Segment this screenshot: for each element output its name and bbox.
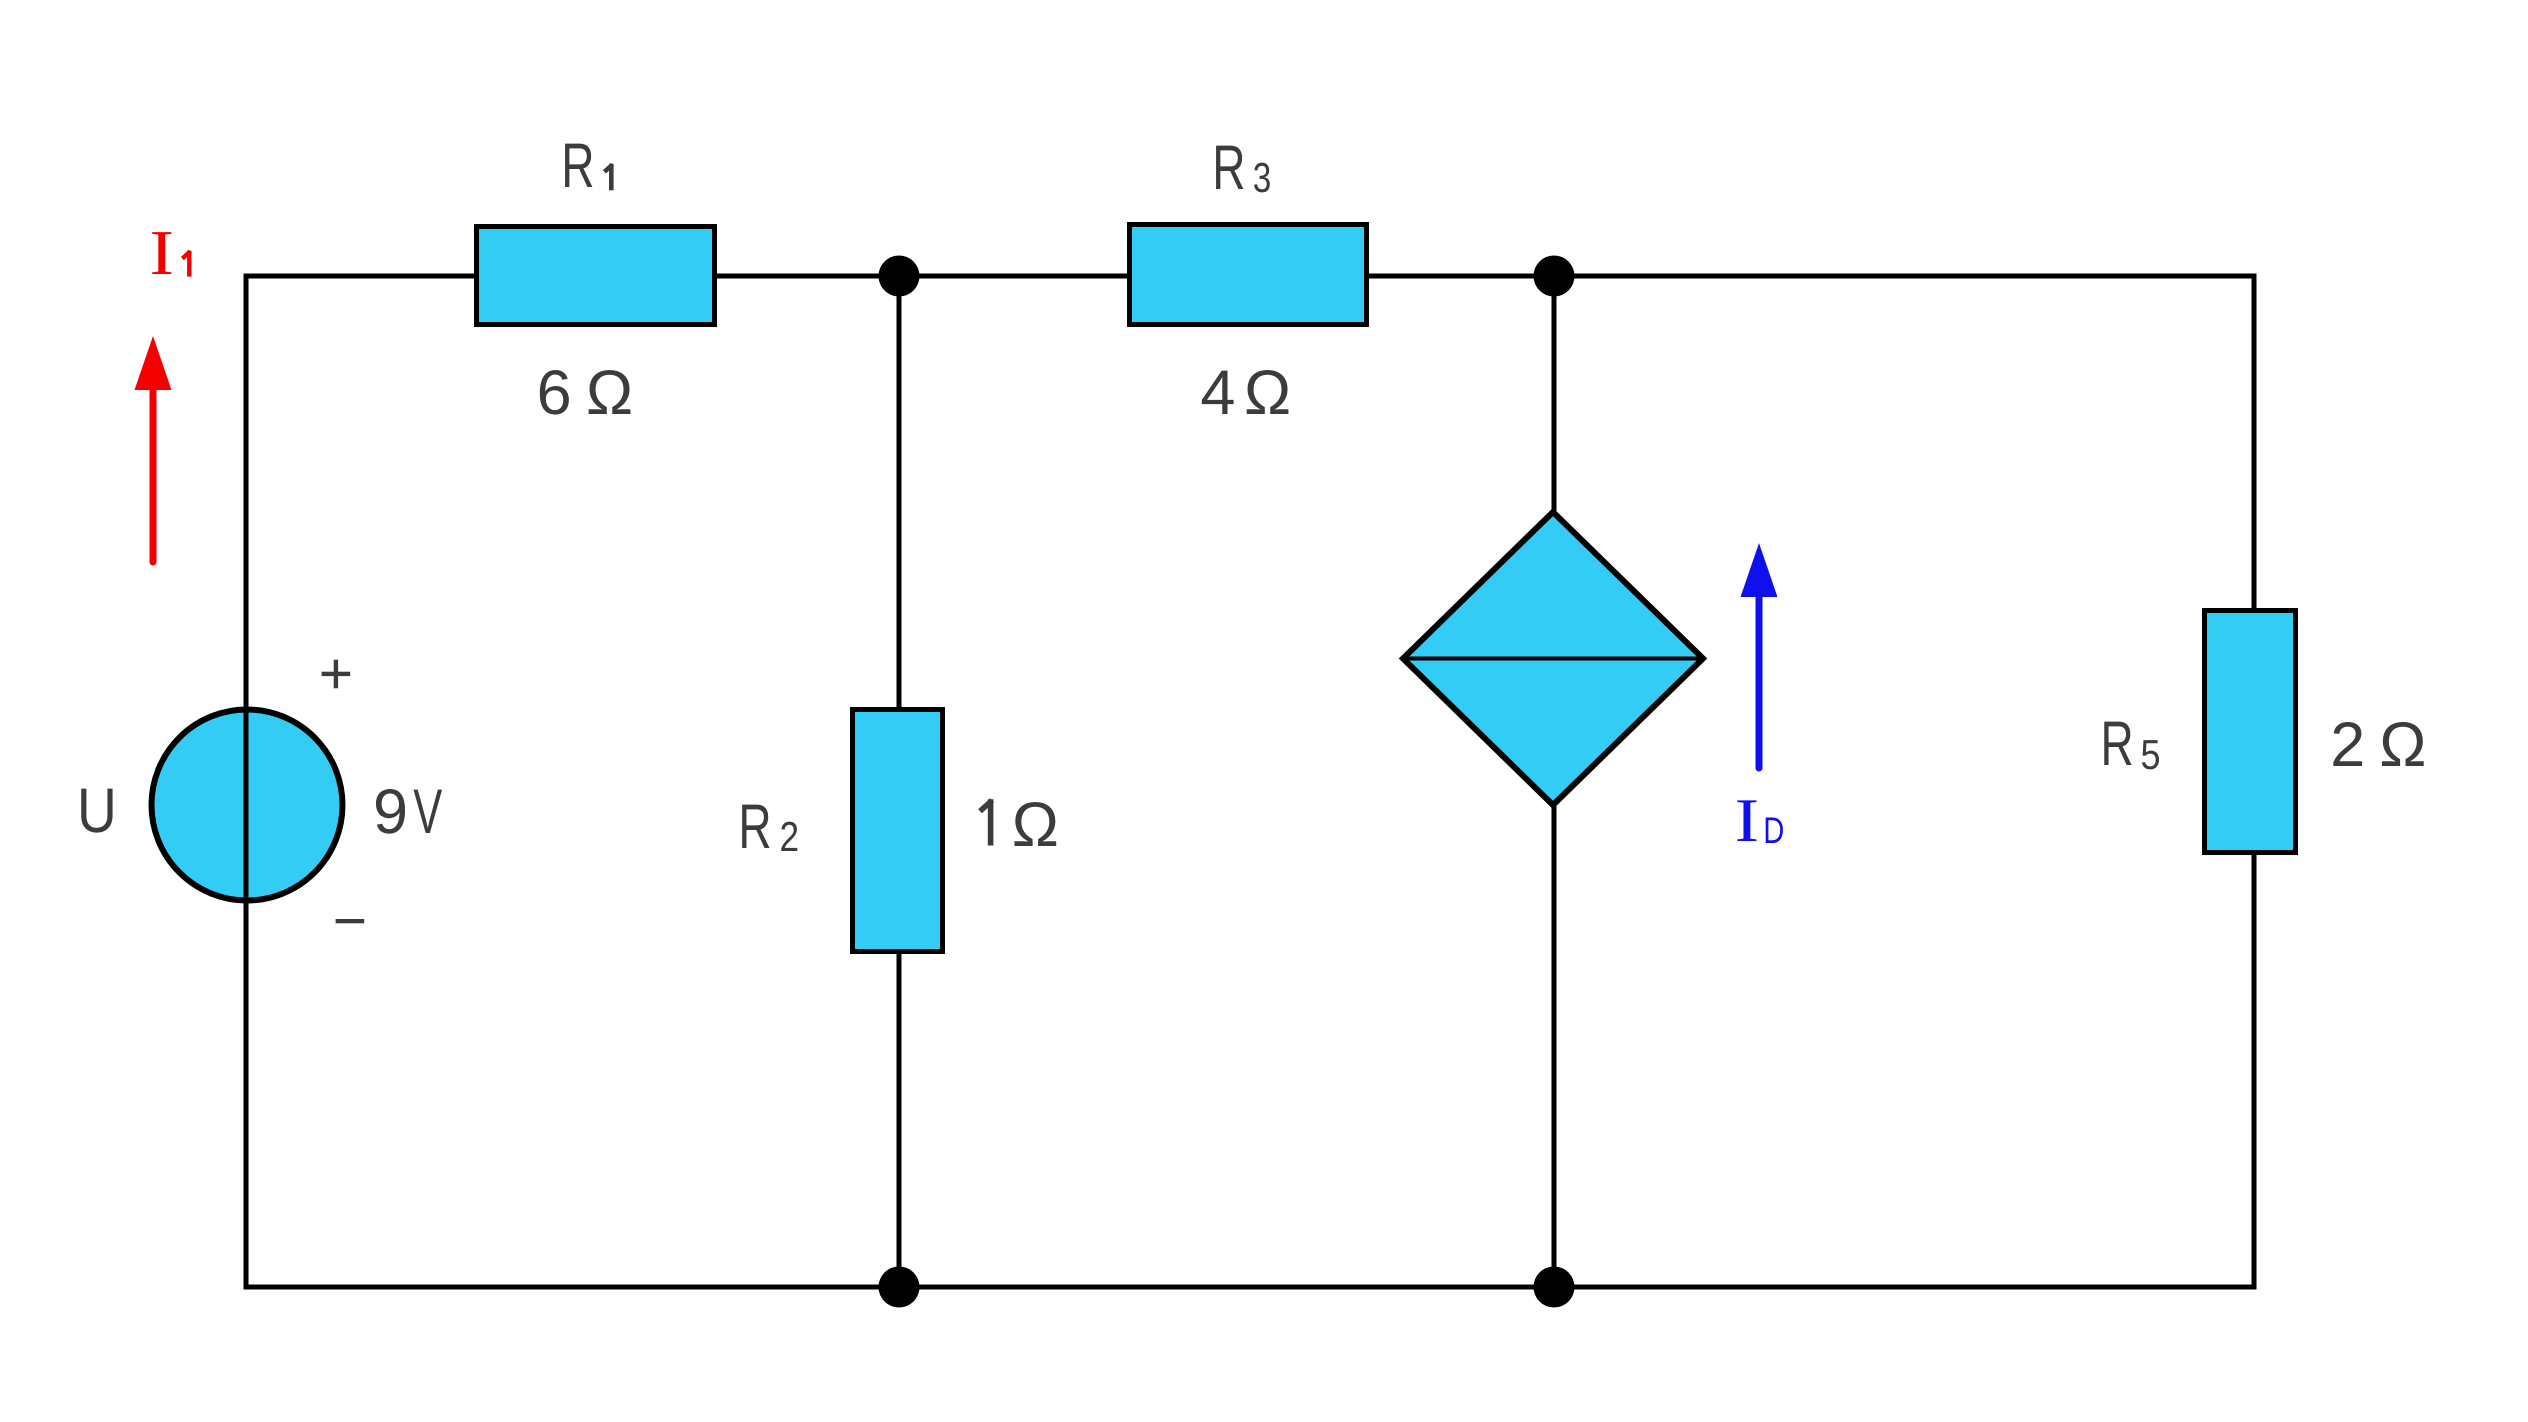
diamond mid line — [1403, 657, 1703, 661]
resistor R2 — [853, 710, 943, 952]
wire bottom — [244, 1285, 2257, 1290]
label R1 — [565, 144, 592, 187]
node A (top, R1-R3 junction) — [879, 256, 920, 297]
value 6 ohm — [540, 370, 569, 415]
node D (bottom, under dependent source) — [1534, 1267, 1575, 1308]
label I1 — [152, 232, 171, 274]
label ID — [1737, 800, 1756, 841]
wire through dependent source — [1552, 276, 1557, 1287]
current arrow I1 (red) — [150, 388, 157, 562]
label R5 — [2104, 722, 2131, 765]
plus sign — [322, 672, 351, 676]
node B (top, R3-right junction) — [1534, 256, 1575, 297]
value 2 ohm — [2333, 722, 2362, 766]
value 1 ohm — [980, 799, 992, 845]
resistor R5 — [2205, 611, 2296, 853]
node C (bottom, under R2) — [879, 1267, 920, 1308]
wire top — [244, 274, 2257, 279]
voltage source U (circle) — [152, 710, 343, 901]
label R2 — [742, 805, 769, 848]
value 9 V — [376, 789, 405, 834]
wire left — [244, 274, 249, 1290]
wire right — [2252, 274, 2257, 1290]
wire middle through R2 — [897, 276, 902, 1287]
resistor R3 — [1130, 225, 1367, 325]
value 4 ohm — [1202, 371, 1234, 414]
resistor R1 — [477, 227, 715, 325]
current arrow ID (blue) — [1756, 593, 1763, 768]
label U — [81, 789, 112, 833]
minus sign — [336, 919, 365, 923]
label R3 — [1216, 146, 1243, 189]
dependent current source (diamond) — [1403, 512, 1703, 805]
